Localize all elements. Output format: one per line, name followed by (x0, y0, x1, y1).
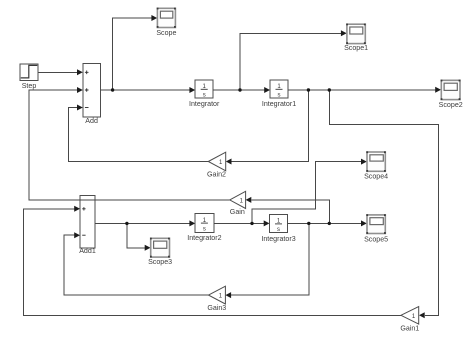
svg-text:Integrator3: Integrator3 (261, 235, 295, 243)
wire Gain3 output to Add1 minus input (64, 232, 209, 295)
junction node to Gain (328, 222, 331, 225)
gain Gain (triangle, value 1) (230, 191, 246, 216)
block Step (20, 64, 38, 90)
wire Gain1 feedback to Add1 plus input (23, 206, 401, 315)
svg-text:Scope1: Scope1 (344, 44, 368, 52)
svg-text:s: s (203, 226, 206, 232)
wire branch up to Gain (246, 197, 330, 224)
block Scope (156, 8, 176, 37)
svg-text:Add: Add (85, 117, 98, 125)
gain Gain3 (triangle, value 1) (207, 286, 226, 312)
svg-text:Add1: Add1 (79, 247, 96, 255)
svg-text:Scope5: Scope5 (364, 236, 388, 244)
block Scope3 (148, 238, 172, 266)
svg-text:Scope3: Scope3 (148, 258, 172, 266)
svg-text:Integrator: Integrator (189, 100, 220, 108)
wire branch down to Gain3 (225, 223, 308, 298)
svg-text:Gain: Gain (230, 208, 245, 216)
svg-text:Integrator1: Integrator1 (262, 100, 296, 108)
block Integrator1 (262, 80, 296, 108)
block Integrator3 (261, 215, 295, 243)
wire Integrator3 output to Scope5 (288, 220, 367, 226)
wire Gain2 output to Add minus input (69, 105, 209, 162)
svg-text:s: s (203, 93, 206, 99)
junction node on Add output (111, 88, 114, 91)
block Add (sum, inputs + + -) (83, 64, 101, 125)
junction node to Gain3 (307, 222, 310, 225)
block Scope1 (344, 24, 368, 53)
block Scope2 (439, 80, 463, 109)
junction node Add1 output (125, 222, 128, 225)
block Integrator2 (187, 213, 221, 242)
wire Integrator2 to Integrator3 with branch up to Scope4 (214, 159, 367, 227)
svg-text:s: s (277, 227, 280, 233)
block Integrator (189, 80, 220, 108)
block Scope4 (364, 151, 388, 180)
wire Integrator to Integrator1 with branch up to Scope1 (213, 30, 347, 93)
wire Gain output to Add second plus input (29, 87, 230, 200)
wire Add1 output to Integrator2 with branch down to Scope3 (95, 220, 195, 250)
junction node to Gain2 (307, 88, 310, 91)
wire Add output to Integrator with branch up to Scope (101, 15, 196, 93)
gain Gain1 (triangle, value 1) (400, 307, 419, 333)
svg-text:Scope2: Scope2 (439, 101, 463, 109)
block Add1 (sum, inputs + -) (79, 196, 96, 256)
svg-text:Scope: Scope (156, 29, 176, 37)
wire branch down to Gain2 (226, 90, 309, 165)
junction node Integrator output (238, 88, 241, 91)
svg-text:s: s (278, 93, 281, 99)
svg-text:Gain1: Gain1 (400, 325, 419, 333)
wire Step to Add input 1 (38, 69, 83, 75)
svg-text:Scope4: Scope4 (364, 173, 388, 181)
junction node to Gain1 feedback (328, 88, 331, 91)
wire Integrator1 output to Scope2 (288, 87, 441, 93)
svg-text:Integrator2: Integrator2 (187, 234, 221, 242)
wire branch down and around to Gain1 (329, 90, 438, 318)
svg-text:Gain3: Gain3 (207, 304, 226, 312)
svg-text:Step: Step (22, 82, 37, 90)
junction node Integrator2 output (250, 222, 253, 225)
block Scope5 (364, 214, 388, 243)
svg-text:Gain2: Gain2 (207, 171, 226, 179)
gain Gain2 (triangle, value 1) (207, 152, 226, 178)
